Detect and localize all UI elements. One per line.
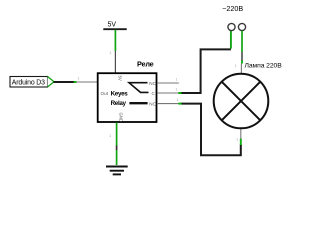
wire: Arduino D3 to relay Out pin bbox=[54, 81, 75, 83]
svg-text:NO: NO bbox=[149, 101, 156, 106]
junction dot (green) lamp top bbox=[241, 61, 243, 64]
junction dot (green) on Out wire bbox=[74, 81, 77, 83]
wire: right terminal to lamp top (green) bbox=[241, 31, 243, 52]
net label Arduino D3 bbox=[10, 77, 54, 88]
svg-text:Лампа 220В: Лампа 220В bbox=[245, 62, 283, 69]
junction dot (green) on C wire bbox=[178, 92, 181, 94]
svg-text:~220В: ~220В bbox=[222, 4, 243, 13]
relay Out pin lead bbox=[76, 81, 98, 83]
AC terminal (left) bbox=[228, 23, 235, 30]
svg-text:Keyes: Keyes bbox=[111, 91, 129, 98]
svg-text:Out: Out bbox=[101, 91, 109, 96]
svg-text:1: 1 bbox=[176, 88, 178, 92]
svg-text:Реле: Реле bbox=[137, 59, 154, 68]
lamp Лампа 220В bbox=[214, 62, 283, 128]
wire segment (dark) on ground drop bbox=[116, 146, 118, 151]
wire segment (green) above lamp-bottom corner bbox=[240, 139, 242, 146]
svg-text:1: 1 bbox=[78, 76, 80, 80]
relay C pin lead bbox=[157, 92, 179, 94]
relay module U1 (Keyes Relay) bbox=[98, 59, 157, 122]
svg-text:1: 1 bbox=[109, 134, 111, 138]
relay NC pin lead bbox=[157, 82, 179, 84]
NO contact line bbox=[129, 102, 147, 104]
svg-text:GND: GND bbox=[119, 113, 124, 123]
lamp bottom pin lead bbox=[240, 129, 242, 139]
ground symbol bbox=[106, 167, 128, 175]
wire segment (dark) on lamp top drop bbox=[241, 52, 243, 61]
power symbol 5V bbox=[103, 22, 126, 30]
svg-text:Arduino D3: Arduino D3 bbox=[12, 79, 45, 86]
svg-text:5V: 5V bbox=[118, 76, 123, 81]
wire: NO pin to lamp bottom bbox=[182, 104, 241, 156]
wire: left terminal drop (green) bbox=[230, 31, 232, 49]
svg-text:NC: NC bbox=[149, 81, 156, 86]
junction dot (green) on NO wire bbox=[178, 103, 181, 105]
wire: 5V bar down bbox=[114, 30, 116, 51]
svg-text:1: 1 bbox=[235, 64, 237, 68]
svg-text:1: 1 bbox=[110, 51, 112, 55]
switch symbol (C to NC arm) bbox=[129, 83, 149, 93]
relay NO pin lead bbox=[157, 103, 179, 105]
wire: C pin to left AC terminal bbox=[182, 49, 231, 93]
lamp top pin lead bbox=[240, 64, 242, 75]
AC terminal (right) bbox=[238, 23, 245, 30]
svg-text:Relay: Relay bbox=[111, 100, 127, 107]
relay GND pin lead + wire to ground (green with dark segment) bbox=[116, 123, 118, 146]
svg-text:1: 1 bbox=[177, 98, 179, 102]
wire: to ground (green) bbox=[116, 150, 118, 165]
relay 5V pin lead bbox=[114, 51, 116, 73]
svg-text:1: 1 bbox=[176, 78, 178, 82]
svg-text:5V: 5V bbox=[108, 22, 117, 29]
svg-text:1: 1 bbox=[236, 137, 238, 141]
